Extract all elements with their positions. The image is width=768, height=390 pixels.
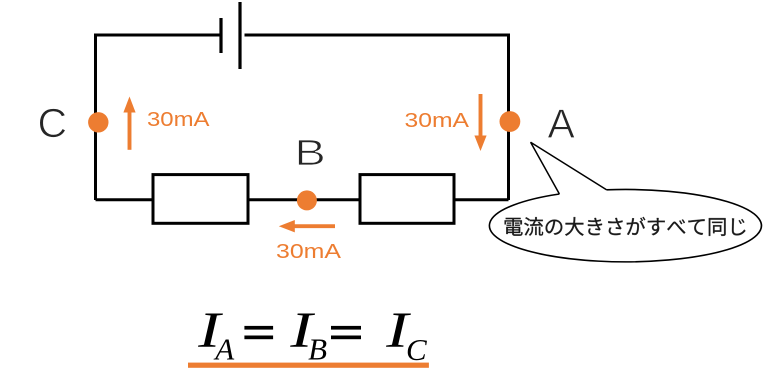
- svg-text:30mA: 30mA: [405, 110, 470, 132]
- svg-text:C: C: [406, 332, 427, 367]
- svg-text:A: A: [213, 331, 235, 366]
- svg-text:30mA: 30mA: [147, 109, 210, 131]
- svg-text:B: B: [308, 331, 327, 366]
- svg-text:C: C: [38, 100, 68, 146]
- svg-text:A: A: [548, 100, 576, 146]
- svg-text:30mA: 30mA: [276, 241, 342, 263]
- svg-text:B: B: [295, 132, 326, 173]
